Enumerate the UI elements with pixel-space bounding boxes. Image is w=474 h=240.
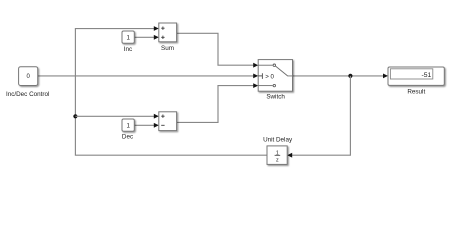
wire: Switch output to Result display bbox=[293, 74, 389, 79]
wire: Sum output to Switch input 1 bbox=[177, 33, 259, 67]
junction node on switch output wire bbox=[348, 74, 352, 78]
svg-text:Unit Delay: Unit Delay bbox=[263, 137, 293, 144]
svg-text:Inc: Inc bbox=[124, 46, 132, 53]
svg-text:> 0: > 0 bbox=[265, 74, 274, 81]
label Dec bbox=[122, 134, 133, 141]
label Inc/Dec Control bbox=[6, 91, 49, 98]
switch block Switch bbox=[258, 60, 292, 92]
constant block Inc/Dec Control value 0 bbox=[19, 67, 38, 86]
display block Result showing -51 bbox=[388, 67, 444, 85]
label Result bbox=[407, 88, 425, 95]
sum block Subtract (+ -) bbox=[159, 112, 177, 131]
svg-text:Switch: Switch bbox=[266, 93, 285, 100]
sum block Sum (+ +) bbox=[159, 23, 177, 42]
label Sum bbox=[161, 45, 174, 52]
svg-text:Result: Result bbox=[407, 88, 425, 95]
svg-text:Sum: Sum bbox=[161, 45, 174, 52]
label Inc bbox=[124, 46, 132, 53]
wire: Unit Delay output to Sum input 1 (left feedback run) bbox=[75, 26, 267, 155]
svg-text:z: z bbox=[276, 158, 279, 164]
wire: feedback from junction down to Unit Delay input bbox=[287, 76, 350, 158]
wire: control from Inc/Dec Control constant to Switch input 2 bbox=[38, 74, 259, 79]
svg-text:1: 1 bbox=[126, 35, 130, 42]
label Switch bbox=[266, 93, 285, 100]
wire: Dec constant to Subtract input 2 bbox=[134, 123, 159, 128]
wire: Inc constant to Sum input 2 bbox=[134, 35, 159, 40]
svg-text:Dec: Dec bbox=[122, 134, 133, 141]
junction node on left feedback run bbox=[73, 114, 77, 118]
wire: Subtract output to Switch input 3 bbox=[177, 83, 259, 122]
constant block Inc value 1 bbox=[122, 31, 134, 43]
label Unit Delay bbox=[263, 137, 293, 144]
constant block Dec value 1 bbox=[122, 119, 134, 131]
unit delay block Unit Delay (1/z) bbox=[267, 146, 287, 165]
svg-text:Inc/Dec Control: Inc/Dec Control bbox=[6, 91, 49, 98]
wire: junction to Subtract input 1 bbox=[75, 114, 158, 119]
svg-text:-51: -51 bbox=[421, 72, 431, 79]
svg-text:1: 1 bbox=[126, 123, 130, 130]
